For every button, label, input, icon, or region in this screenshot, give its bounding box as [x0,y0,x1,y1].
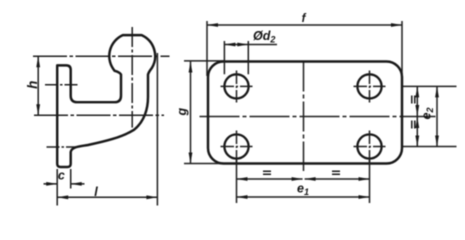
c extension lines [57,169,70,206]
hole bottom-right [357,134,381,158]
c arrows [46,182,81,186]
elbow centerline horizontal [34,114,164,116]
dimension h arrows [36,56,40,115]
f arrows [207,23,402,27]
l right extension line [156,53,158,206]
equals label bottom left [263,171,271,174]
g extension lines [184,61,225,164]
f dimension line [207,24,402,26]
g arrows [189,62,193,164]
svg-text:f: f [302,13,307,25]
equals label bottom right [332,171,340,174]
svg-text:g: g [175,108,189,117]
plate horizontal centerline [200,116,436,118]
flange bottom hole centerline [47,146,77,148]
d2 arrows [224,43,248,47]
equals label upper right [412,96,415,104]
hole top-right [357,74,381,98]
crosshair top-left [221,71,253,103]
equals bottom arrows [237,177,370,181]
equals dimension line bottom [237,178,370,180]
hole bottom-left [224,134,248,158]
l arrows [57,195,157,199]
hole top-left [224,74,248,98]
ball centerline vertical [131,27,133,128]
d2 dimension line and shoulder [224,44,277,46]
e2 extension lines [403,86,457,146]
equals label lower right [412,121,415,129]
svg-text:Ød2: Ød2 [253,29,275,45]
e1 extension lines [237,159,370,203]
svg-text:e1: e1 [297,181,309,197]
l dimension line [57,196,157,198]
svg-text:h: h [25,81,40,89]
ball centerline horizontal [33,55,170,57]
dimension h line [37,56,39,115]
e2 outer dimension line [436,86,438,146]
plate outline [208,62,402,164]
e2 outer arrows [435,86,439,146]
e1 dimension line [237,196,370,198]
hook outline with flange [57,35,155,167]
svg-text:c: c [58,169,65,183]
f extension lines [207,21,402,76]
crosshair bottom-left [221,131,253,163]
crosshair bottom-right [354,131,386,163]
e2 inner arrows [415,86,419,146]
e1 arrows [237,195,370,199]
e2 inner dimension line [416,86,418,146]
svg-text:l: l [94,185,98,199]
crosshair top-right [354,71,386,103]
svg-text:e2: e2 [420,108,436,120]
flange top hole centerline [45,84,80,86]
g dimension line [190,62,192,164]
c dimension line [44,183,85,185]
d2 extension lines [224,41,248,74]
plate vertical centerline [303,62,305,172]
